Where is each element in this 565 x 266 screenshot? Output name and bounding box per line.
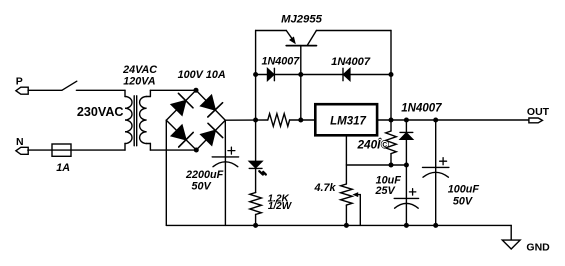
junction 10uF / ground rail (404, 223, 409, 228)
bridge diode top-left (171, 93, 193, 115)
capacitor C2 10uF 25V (374, 165, 418, 225)
collector rail vertical (390, 31, 392, 132)
svg-text:230VAC: 230VAC (77, 105, 124, 119)
svg-text:LM317: LM317 (330, 115, 366, 127)
junction pot / ground rail (344, 223, 349, 228)
transformer T1 primary (125, 90, 132, 150)
junction collector / D2 (389, 72, 394, 77)
resistor R3 1.2K 1/2W (250, 193, 293, 226)
junction bridge bottom (194, 148, 199, 153)
resistor R1 (input) (268, 114, 290, 127)
wire switch to transformer (76, 89, 125, 91)
capacitor C1 2200uF 50V (185, 147, 239, 225)
svg-text:4.7k: 4.7k (313, 182, 336, 194)
svg-text:24VAC: 24VAC (122, 64, 157, 76)
svg-text:GND: GND (526, 242, 550, 254)
diode D1 1N4007 (261, 55, 300, 80)
svg-text:50V: 50V (191, 180, 211, 192)
regulator U1 LM317 (315, 104, 377, 135)
svg-text:MJ2955: MJ2955 (281, 14, 323, 26)
junction bridge top (194, 88, 199, 93)
wire N to fuse (28, 149, 52, 151)
svg-text:100V 10A: 100V 10A (178, 69, 226, 81)
svg-text:50V: 50V (453, 195, 473, 207)
bridge rectifier diamond (166, 90, 225, 150)
junction D3 bottom / ADJ wire (404, 163, 409, 168)
resistor R2 240ohm (356, 131, 396, 165)
potentiometer 4.7k (313, 182, 360, 225)
diode D3 1N4007 (400, 103, 442, 166)
junction D3 top / out rail (404, 118, 409, 123)
transformer T1 secondary (140, 90, 151, 150)
junction 100uF / out rail (433, 118, 438, 123)
svg-text:1/2W: 1/2W (268, 201, 293, 212)
bridge diode bottom-right (201, 123, 223, 145)
transformer T1 core (134, 96, 137, 146)
capacitor C3 100uF 50V (423, 120, 480, 225)
svg-text:N: N (16, 136, 24, 148)
label 24VAC 120VA (122, 64, 157, 88)
svg-text:OUT: OUT (527, 106, 550, 118)
switch S1 (62, 81, 77, 90)
junction base lead / LM317 input (298, 118, 303, 123)
junction LM317 out / collector rail (389, 118, 394, 123)
wire LM317 out to OUT (377, 119, 529, 121)
svg-text:P: P (16, 76, 23, 88)
diode D2 1N4007 (301, 56, 391, 81)
junction 240ohm / ADJ wire (389, 163, 394, 168)
svg-text:1N4007: 1N4007 (331, 56, 371, 68)
junction 1.2K / ground rail (253, 223, 258, 228)
terminal P (16, 76, 28, 95)
junction emitter / D1 (253, 72, 258, 77)
svg-text:240Î©: 240Î© (356, 137, 389, 151)
wire secondary bottom to bridge (150, 149, 196, 151)
svg-text:1N4007: 1N4007 (261, 55, 300, 67)
wire emitter junction to D1 (256, 74, 268, 76)
bridge diode bottom-left (171, 125, 193, 147)
fuse F1 1A (52, 144, 71, 174)
junction main rail / emitter rail (253, 118, 258, 123)
wire secondary top to bridge (150, 89, 196, 91)
terminal OUT (527, 106, 550, 123)
ground drop (510, 225, 512, 240)
ADJ wire horizontal (346, 164, 406, 166)
emitter rail vertical (255, 31, 257, 162)
LM317 ADJ lead (345, 135, 347, 184)
ground rail (166, 224, 511, 226)
svg-text:1N4007: 1N4007 (401, 103, 442, 115)
svg-text:120VA: 120VA (123, 76, 155, 88)
transistor Q1 MJ2955 (256, 14, 391, 46)
wire bridge left to ground rail (165, 120, 167, 225)
bridge diode top-right (201, 95, 223, 117)
junction base / diodes (298, 72, 303, 77)
svg-text:1A: 1A (56, 162, 70, 174)
svg-text:2200uF: 2200uF (185, 169, 224, 181)
wire bridge right to main rail (225, 119, 267, 121)
LED (249, 161, 266, 192)
svg-text:100uF: 100uF (448, 184, 480, 196)
wire bridge right down to C1 (224, 120, 226, 157)
wire P to switch (28, 89, 62, 91)
wire R1 to LM317 (290, 119, 316, 121)
junction 100uF / ground rail (433, 223, 438, 228)
wire fuse to transformer (71, 149, 125, 151)
svg-text:25V: 25V (374, 185, 395, 197)
terminal N (16, 136, 28, 155)
base lead down (300, 46, 302, 120)
ground symbol (502, 240, 550, 254)
